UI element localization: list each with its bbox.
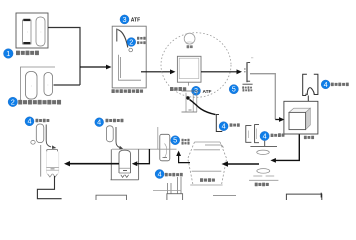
label under box3 [112, 89, 144, 93]
label for step 2 [18, 100, 61, 105]
monitor (diagnostic unit) [284, 101, 318, 134]
group 2 capsules [26, 72, 53, 100]
arrow into box 3 [80, 65, 112, 70]
stem into monitor [307, 96, 309, 102]
label 4b [106, 119, 124, 123]
bottle label 2 lines [182, 139, 190, 145]
arrow box3 to pan [141, 69, 176, 74]
tiny label in box3 [137, 37, 146, 44]
arrow ellipse to 5-symbol [201, 69, 242, 74]
gray wire from symbol 5 to monitor [250, 74, 275, 120]
filler cap circle [184, 33, 195, 44]
box 3 (filling station) [112, 26, 146, 88]
small o in box3 [129, 48, 133, 52]
hose 4a [46, 125, 56, 149]
step circle 2 [8, 97, 17, 106]
barrel top tick [205, 145, 224, 148]
svg-text:4: 4 [222, 122, 226, 131]
step circle 5 top [229, 85, 238, 94]
svg-text:4: 4 [324, 80, 328, 89]
arrow into waste barrel [222, 161, 260, 167]
svg-text:4: 4 [263, 132, 267, 141]
step circle 4 c [260, 131, 269, 140]
plug dashes [253, 175, 274, 177]
bottom right box inner tick [320, 193, 322, 198]
up arrow into bottle 5 [176, 151, 190, 163]
plug ellipse 2 [257, 169, 270, 174]
svg-text::: : [48, 83, 49, 87]
step circle 4 (hose) [219, 122, 228, 131]
dashed ellipse (vehicle underside) [161, 33, 231, 98]
label for step 1 [16, 51, 39, 56]
step circle 2 in box3 [127, 37, 136, 46]
label 4d [165, 173, 183, 177]
funnel bracket above monitor [303, 74, 318, 95]
jack stand [153, 177, 183, 201]
svg-text::: : [27, 30, 28, 34]
bottom right box [286, 194, 321, 200]
left bottle [46, 150, 58, 177]
plug ellipse 1 [257, 150, 270, 154]
svg-text:2: 2 [11, 98, 15, 107]
svg-text:4: 4 [97, 118, 101, 127]
hose blob [186, 96, 189, 99]
label 4a [36, 119, 50, 122]
black feed into canister [132, 149, 150, 166]
bench line [112, 148, 177, 150]
step circle 5 (bottle) [171, 136, 180, 145]
capsule 4a [31, 124, 44, 144]
svg-text::: : [41, 30, 42, 34]
gray dash top [251, 57, 253, 59]
capsule 4b [106, 126, 113, 142]
label for hose step [230, 123, 240, 126]
step circle 4 d (jack) [155, 169, 164, 178]
hose 4b [116, 127, 123, 149]
hose hook in box 3 [117, 29, 128, 48]
base line 4c [250, 146, 277, 148]
step circle 4 a [25, 117, 34, 126]
label under monitor [304, 136, 314, 139]
svg-text:4: 4 [158, 169, 162, 178]
base under symbol 5 [243, 83, 253, 85]
svg-text:4: 4 [27, 117, 31, 126]
svg-text:5: 5 [173, 136, 177, 145]
label 4 top right [331, 83, 349, 87]
barrel label [200, 178, 215, 182]
svg-text:2: 2 [129, 37, 133, 46]
hose from cup [190, 100, 216, 115]
drain zigzag wire [37, 176, 61, 199]
big transfer arrow to left bottle [64, 161, 119, 166]
plug underline [249, 179, 278, 181]
svg-text:ATF: ATF [131, 18, 140, 24]
step circle 3 top [120, 15, 129, 24]
stand pole [40, 145, 42, 177]
label under symbol 5 [242, 86, 252, 91]
svg-text:3: 3 [122, 15, 126, 24]
step circle 1 [4, 49, 14, 59]
bottle (step 5 fluid) [160, 134, 170, 161]
label under ellipse [170, 87, 186, 91]
extractor frame [111, 149, 139, 180]
bracket pair 4c [246, 125, 259, 143]
box 1 (new fluid containers) [16, 13, 48, 48]
bottom drain pan box [96, 195, 127, 200]
extractor canister [119, 150, 131, 177]
svg-text::: : [31, 84, 32, 88]
label left under monitor [278, 133, 284, 136]
svg-text:1: 1 [6, 49, 10, 58]
svg-text:5: 5 [232, 85, 236, 94]
cup container under ellipse [182, 91, 200, 112]
group 2 frame [21, 67, 56, 100]
wire from box1 to junction [48, 28, 80, 86]
step circle 3 bottom [192, 86, 201, 95]
plug label [255, 183, 269, 187]
floor mark line [213, 194, 236, 196]
bracket under hose [216, 115, 222, 132]
arrow into monitor [275, 117, 284, 122]
label 4c [271, 134, 285, 137]
svg-text:ATF: ATF [203, 89, 212, 95]
arrow from monitor down-left [270, 134, 299, 163]
step circle 4 b [95, 118, 104, 127]
stem 4c [264, 141, 266, 147]
step circle 4 top right [321, 80, 330, 89]
oil pan rect [177, 45, 201, 85]
level check symbol 5 [244, 62, 250, 82]
inner container in box3 [119, 55, 142, 80]
waste barrel (dashed) [188, 142, 227, 185]
bench post [157, 127, 159, 149]
